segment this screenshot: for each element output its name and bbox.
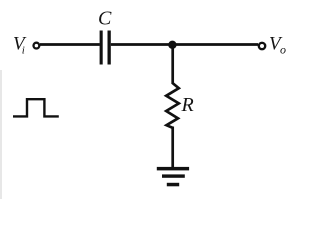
input pulse waveform symbol bbox=[13, 99, 59, 116]
ground bar 2 bbox=[162, 174, 185, 177]
scan artifact left border line bbox=[0, 70, 2, 199]
capacitor C left plate bbox=[100, 31, 103, 65]
svg-text:V: V bbox=[13, 33, 27, 54]
wire: input terminal to capacitor bbox=[40, 43, 100, 46]
resistor R zigzag bbox=[166, 83, 179, 128]
svg-text:C: C bbox=[98, 8, 112, 30]
wire: node down to resistor bbox=[171, 45, 174, 85]
ground bar 1 bbox=[157, 167, 189, 171]
capacitor C right plate bbox=[108, 31, 111, 65]
input terminal (open circle) bbox=[34, 43, 40, 49]
svg-text:i: i bbox=[22, 44, 25, 56]
output terminal (open circle) bbox=[259, 43, 265, 49]
wire: capacitor to output terminal bbox=[111, 43, 258, 46]
wire: resistor to ground bbox=[171, 127, 174, 169]
svg-text:R: R bbox=[181, 94, 194, 116]
ground bar 3 bbox=[167, 183, 179, 187]
node junction dot bbox=[168, 41, 176, 49]
svg-text:o: o bbox=[280, 42, 286, 56]
